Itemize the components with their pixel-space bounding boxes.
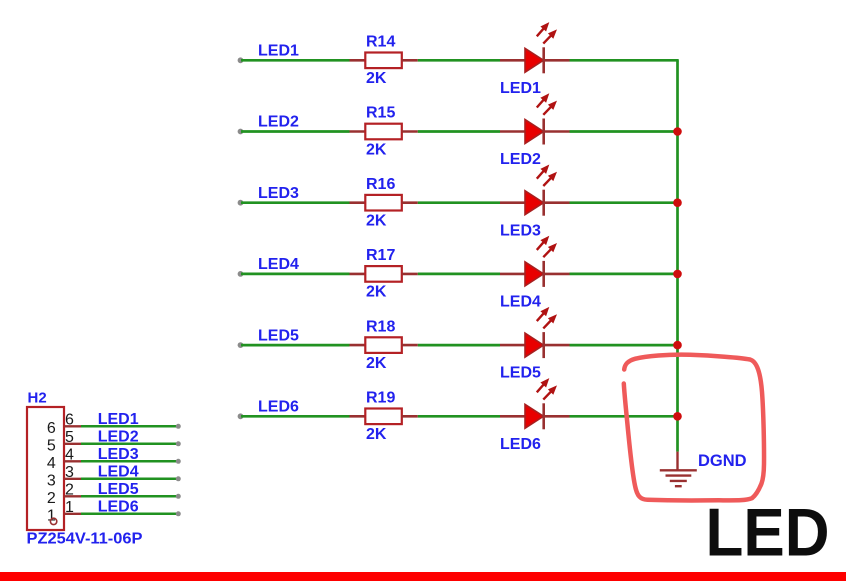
diode LED4 anode pin xyxy=(500,273,525,276)
diode LED2 anode pin xyxy=(500,130,525,133)
svg-text:2K: 2K xyxy=(366,284,387,301)
svg-text:LED4: LED4 xyxy=(258,256,299,273)
svg-text:1: 1 xyxy=(65,499,74,516)
connector H2 pin 5 stub xyxy=(64,443,81,445)
diode LED6 light arrow 2 xyxy=(543,390,552,399)
svg-text:2K: 2K xyxy=(366,426,387,443)
wire net LED1 from entry to R14 xyxy=(241,59,350,62)
wire R15 to LED2 anode xyxy=(418,130,500,133)
wire R18 to LED5 anode xyxy=(418,344,500,347)
diode LED5 anode pin xyxy=(500,344,525,347)
svg-text:6: 6 xyxy=(47,420,56,437)
wire R14 to LED1 anode xyxy=(418,59,500,62)
svg-text:2: 2 xyxy=(65,482,74,499)
svg-text:PZ254V-11-06P: PZ254V-11-06P xyxy=(27,531,143,548)
wire LED2 cathode to ground bus xyxy=(570,130,678,133)
svg-text:3: 3 xyxy=(65,464,74,481)
svg-text:R14: R14 xyxy=(366,34,395,51)
svg-text:LED5: LED5 xyxy=(98,481,139,498)
diode LED2 triangle xyxy=(525,120,544,144)
diode LED4 cathode bar xyxy=(542,261,545,287)
svg-text:R19: R19 xyxy=(366,390,395,407)
svg-text:4: 4 xyxy=(47,455,56,472)
svg-text:3: 3 xyxy=(47,473,56,490)
svg-text:LED1: LED1 xyxy=(98,411,139,428)
svg-text:LED3: LED3 xyxy=(500,222,541,239)
diode LED2 cathode pin xyxy=(544,130,570,133)
svg-text:LED2: LED2 xyxy=(500,151,541,168)
resistor R16 pin 1 xyxy=(350,201,367,204)
node LED5 entry dot xyxy=(238,342,244,348)
diode LED6 cathode pin xyxy=(544,415,570,418)
svg-text:LED1: LED1 xyxy=(258,43,299,60)
wire H2 pin 5 net LED2 xyxy=(81,443,178,446)
wire ground bus vertical xyxy=(676,60,679,451)
diode LED4 cathode pin xyxy=(544,273,570,276)
node H2 LED4 end dot xyxy=(176,476,181,481)
wire net LED5 from entry to R18 xyxy=(241,344,350,347)
junction dot row 3 on ground bus xyxy=(673,198,682,207)
svg-text:1: 1 xyxy=(47,508,56,525)
diode LED2 light arrow 1 xyxy=(537,98,545,107)
svg-text:LED: LED xyxy=(706,495,830,571)
connector H2 body xyxy=(27,407,64,530)
wire H2 pin 3 net LED4 xyxy=(81,478,178,481)
node H2 LED5 end dot xyxy=(176,494,181,499)
diode LED5 triangle xyxy=(525,333,544,357)
resistor R16 body xyxy=(365,195,402,211)
wire R19 to LED6 anode xyxy=(418,415,500,418)
junction dot row 4 on ground bus xyxy=(673,270,682,279)
svg-text:LED2: LED2 xyxy=(258,114,299,131)
diode LED6 cathode bar xyxy=(542,403,545,429)
diode LED1 anode pin xyxy=(500,59,525,62)
resistor R18 pin 2 xyxy=(402,344,418,347)
diode LED2 cathode bar xyxy=(542,119,545,145)
wire net LED2 from entry to R15 xyxy=(241,130,350,133)
svg-text:LED1: LED1 xyxy=(500,80,541,97)
svg-text:4: 4 xyxy=(65,447,74,464)
svg-text:LED6: LED6 xyxy=(500,436,541,453)
resistor R16 pin 2 xyxy=(402,201,418,204)
node H2 LED3 end dot xyxy=(176,459,181,464)
svg-text:LED4: LED4 xyxy=(98,463,139,480)
node H2 LED2 end dot xyxy=(176,441,181,446)
node LED1 entry dot xyxy=(238,57,244,63)
svg-text:LED3: LED3 xyxy=(258,185,299,202)
resistor R15 body xyxy=(365,124,402,140)
svg-text:R16: R16 xyxy=(366,176,395,193)
diode LED5 cathode bar xyxy=(542,332,545,358)
wire H2 pin 1 net LED6 xyxy=(81,513,178,516)
wire H2 pin 4 net LED3 xyxy=(81,460,178,463)
svg-text:R18: R18 xyxy=(366,318,395,335)
node LED2 entry dot xyxy=(238,129,244,135)
diode LED1 triangle xyxy=(525,48,544,72)
svg-text:DGND: DGND xyxy=(698,452,747,470)
wire R16 to LED3 anode xyxy=(418,201,500,204)
diode LED3 cathode pin xyxy=(544,201,570,204)
diode LED5 cathode pin xyxy=(544,344,570,347)
connector H2 pin 6 stub xyxy=(64,425,81,427)
connector H2 pin 3 stub xyxy=(64,478,81,480)
wire LED6 cathode to ground bus xyxy=(570,415,678,418)
svg-text:6: 6 xyxy=(65,412,74,429)
diode LED6 triangle xyxy=(525,404,544,428)
diode LED1 light arrow 2 xyxy=(543,34,552,43)
svg-text:LED2: LED2 xyxy=(98,428,139,445)
node LED4 entry dot xyxy=(238,271,244,277)
wire LED3 cathode to ground bus xyxy=(570,201,678,204)
wire H2 pin 6 net LED1 xyxy=(81,425,178,428)
diode LED2 light arrow 2 xyxy=(543,105,552,114)
junction dot row 5 on ground bus xyxy=(673,341,682,350)
wire LED5 cathode to ground bus xyxy=(570,344,678,347)
diode LED6 anode pin xyxy=(500,415,525,418)
diode LED4 light arrow 1 xyxy=(537,241,545,250)
diode LED3 triangle xyxy=(525,191,544,215)
svg-text:LED6: LED6 xyxy=(258,399,299,416)
junction dot row 2 on ground bus xyxy=(673,127,682,136)
wire net LED4 from entry to R17 xyxy=(241,273,350,276)
svg-text:LED4: LED4 xyxy=(500,294,541,311)
wire R17 to LED4 anode xyxy=(418,273,500,276)
svg-text:R15: R15 xyxy=(366,105,395,122)
diode LED1 cathode pin xyxy=(544,59,570,62)
node LED3 entry dot xyxy=(238,200,244,206)
connector H2 pin 1 stub xyxy=(64,513,81,515)
diode LED4 light arrow 2 xyxy=(543,248,552,257)
diode LED3 light arrow 2 xyxy=(543,177,552,186)
resistor R15 pin 1 xyxy=(350,130,367,133)
annotation freehand red loop around DGND xyxy=(624,355,764,501)
svg-text:R17: R17 xyxy=(366,247,395,264)
junction dot row 6 on ground bus xyxy=(673,412,682,421)
resistor R14 pin 2 xyxy=(402,59,418,62)
resistor R17 pin 1 xyxy=(350,273,367,276)
diode LED3 light arrow 1 xyxy=(537,170,545,179)
resistor R17 body xyxy=(365,266,402,282)
resistor R18 body xyxy=(365,337,402,353)
wire net LED6 from entry to R19 xyxy=(241,415,350,418)
diode LED5 light arrow 2 xyxy=(543,319,552,328)
node LED6 entry dot xyxy=(238,413,244,419)
ground symbol bars xyxy=(660,470,697,486)
diode LED3 anode pin xyxy=(500,201,525,204)
resistor R17 pin 2 xyxy=(402,273,418,276)
resistor R14 pin 1 xyxy=(350,59,367,62)
svg-text:2K: 2K xyxy=(366,213,387,230)
svg-text:2K: 2K xyxy=(366,141,387,158)
connector H2 pin 1 indicator circle xyxy=(50,518,56,524)
wire LED4 cathode to ground bus xyxy=(570,273,678,276)
svg-text:LED5: LED5 xyxy=(500,365,541,382)
svg-text:2K: 2K xyxy=(366,70,387,87)
svg-text:LED6: LED6 xyxy=(98,498,139,515)
svg-text:2K: 2K xyxy=(366,355,387,372)
resistor R19 pin 1 xyxy=(350,415,367,418)
wire LED1 cathode to ground bus xyxy=(570,59,679,62)
svg-text:LED3: LED3 xyxy=(98,446,139,463)
svg-text:H2: H2 xyxy=(28,390,47,407)
wire net LED3 from entry to R16 xyxy=(241,201,350,204)
svg-text:5: 5 xyxy=(65,429,74,446)
bottom red bar xyxy=(0,572,846,581)
node H2 LED1 end dot xyxy=(176,424,181,429)
resistor R18 pin 1 xyxy=(350,344,367,347)
resistor R19 pin 2 xyxy=(402,415,418,418)
resistor R14 body xyxy=(365,53,402,69)
diode LED4 triangle xyxy=(525,262,544,286)
diode LED3 cathode bar xyxy=(542,190,545,216)
diode LED5 light arrow 1 xyxy=(537,312,545,321)
ground DGND pin stub xyxy=(676,452,678,471)
diode LED1 light arrow 1 xyxy=(537,27,545,36)
svg-text:5: 5 xyxy=(47,438,56,455)
node H2 LED6 end dot xyxy=(176,511,181,516)
connector H2 pin 2 stub xyxy=(64,495,81,497)
svg-text:2: 2 xyxy=(47,490,56,507)
wire H2 pin 2 net LED5 xyxy=(81,495,178,498)
resistor R15 pin 2 xyxy=(402,130,418,133)
svg-text:LED5: LED5 xyxy=(258,327,299,344)
diode LED6 light arrow 1 xyxy=(537,383,545,392)
resistor R19 body xyxy=(365,409,402,425)
connector H2 pin 4 stub xyxy=(64,460,81,462)
diode LED1 cathode bar xyxy=(542,47,545,73)
